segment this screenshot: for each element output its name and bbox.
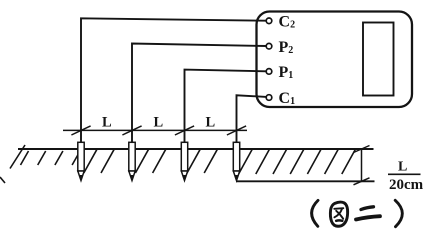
label P1: [279, 64, 294, 81]
wire P1: [185, 70, 267, 144]
ground lower boundary line: [236, 180, 375, 182]
dimension tick at electrode 1: [71, 126, 90, 135]
terminal P2: [266, 43, 272, 49]
terminal C1: [266, 95, 272, 101]
dimension tick at electrode 2: [122, 126, 141, 135]
svg-text:L: L: [154, 115, 164, 131]
label C1: [279, 90, 296, 107]
depth dimension line: [361, 149, 363, 181]
caption character 图: [330, 202, 347, 226]
label 20cm fraction denominator: [389, 177, 424, 193]
dimension tick at electrode 3: [175, 126, 194, 135]
label C2: [279, 14, 296, 31]
label P2: [279, 39, 294, 56]
depth dimension tick top: [354, 146, 370, 153]
label L (spacing 2): [154, 115, 164, 131]
instrument box U1 (earth resistance tester): [257, 12, 413, 108]
label L (spacing 3): [206, 115, 216, 131]
electrode 4: [233, 142, 239, 180]
display window of instrument: [363, 23, 394, 96]
fraction bar: [388, 173, 421, 175]
label L (spacing 1): [102, 115, 112, 131]
ground surface line: [18, 148, 374, 150]
ground hatching: [10, 145, 355, 174]
caption close paren ）: [395, 200, 402, 226]
label L/20cm fraction numerator: [398, 160, 407, 175]
electrode 2: [129, 142, 135, 180]
svg-text:20cm: 20cm: [389, 177, 424, 193]
svg-text:L: L: [398, 160, 407, 175]
caption character 二: [356, 207, 380, 220]
wire C1: [237, 95, 267, 143]
scan artifact left edge: [0, 177, 5, 183]
terminal C2: [266, 18, 272, 24]
terminal P1: [266, 69, 272, 75]
electrode 1: [78, 142, 84, 180]
dimension tick at electrode 4: [227, 126, 246, 135]
depth dimension tick bottom: [354, 178, 370, 185]
svg-text:L: L: [206, 115, 216, 131]
electrode 3: [181, 142, 187, 180]
caption open paren （: [312, 200, 318, 226]
dimension line for spacings L: [63, 129, 247, 131]
wire C2: [81, 18, 267, 143]
wire P2: [132, 44, 267, 144]
svg-text:L: L: [102, 115, 112, 131]
